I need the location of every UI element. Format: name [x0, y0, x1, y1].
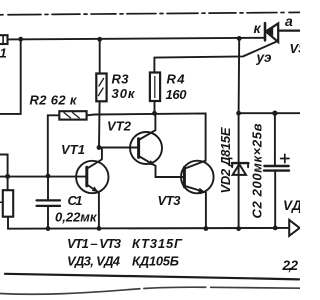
svg-text:а: а: [285, 13, 293, 29]
svg-text:VД3: VД3: [283, 198, 300, 213]
svg-text:VT3: VT3: [158, 193, 182, 208]
svg-text:VТ1 – VТ3: VТ1 – VТ3: [67, 236, 122, 251]
svg-text:R3: R3: [112, 72, 130, 87]
svg-text:1: 1: [0, 46, 7, 61]
svg-text:VS: VS: [290, 41, 301, 56]
svg-text:VД3, VД4: VД3, VД4: [67, 254, 121, 269]
svg-text:R2 62 к: R2 62 к: [30, 93, 78, 108]
svg-text:160: 160: [166, 87, 188, 102]
svg-text:КТ315Г: КТ315Г: [132, 236, 183, 251]
svg-text:С2 200мк×25в: С2 200мк×25в: [250, 123, 265, 218]
svg-text:R4: R4: [167, 72, 186, 87]
svg-text:0,22мк: 0,22мк: [55, 210, 98, 225]
svg-text:VD2 Д815Е: VD2 Д815Е: [218, 127, 233, 193]
svg-text:VT1: VT1: [61, 142, 85, 157]
svg-text:30к: 30к: [112, 86, 136, 101]
svg-text:к: к: [254, 20, 262, 36]
svg-text:2,2: 2,2: [282, 258, 299, 273]
svg-text:уэ: уэ: [256, 50, 273, 65]
svg-text:VT2: VT2: [107, 119, 132, 134]
svg-text:КД105Б: КД105Б: [132, 254, 179, 269]
svg-text:С1: С1: [68, 193, 83, 208]
